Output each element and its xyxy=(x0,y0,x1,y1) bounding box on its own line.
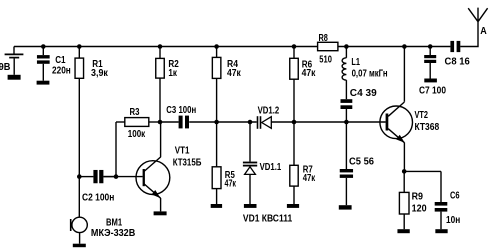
svg-text:R9: R9 xyxy=(412,192,424,203)
svg-text:47к: 47к xyxy=(303,173,316,184)
svg-text:C2 100н: C2 100н xyxy=(82,192,114,203)
svg-text:C4 39: C4 39 xyxy=(350,88,377,99)
svg-text:R8: R8 xyxy=(319,33,329,44)
svg-text:120: 120 xyxy=(412,204,427,215)
svg-text:R3: R3 xyxy=(130,107,140,118)
svg-text:C8 16: C8 16 xyxy=(445,57,471,68)
svg-text:1к: 1к xyxy=(168,68,177,79)
svg-text:3,9к: 3,9к xyxy=(91,68,109,79)
svg-text:C7 100: C7 100 xyxy=(419,86,446,97)
svg-text:220н: 220н xyxy=(52,66,71,77)
svg-text:10н: 10н xyxy=(446,215,460,226)
svg-text:9В: 9В xyxy=(0,62,10,73)
svg-text:47к: 47к xyxy=(302,68,317,79)
svg-text:VD1.2: VD1.2 xyxy=(258,106,280,117)
svg-text:100к: 100к xyxy=(128,129,146,140)
svg-text:510: 510 xyxy=(319,54,332,65)
svg-text:КТ315Б: КТ315Б xyxy=(173,157,202,168)
svg-text:47к: 47к xyxy=(227,68,242,79)
svg-text:VT1: VT1 xyxy=(175,145,190,156)
svg-text:ВМ1: ВМ1 xyxy=(106,217,122,228)
svg-text:VD1 КВС111: VD1 КВС111 xyxy=(243,213,293,224)
svg-text:VT2: VT2 xyxy=(415,110,429,121)
svg-text:C3 100н: C3 100н xyxy=(166,105,196,116)
svg-text:C5 56: C5 56 xyxy=(349,156,374,167)
svg-text:МКЭ-332В: МКЭ-332В xyxy=(91,228,135,239)
svg-text:47к: 47к xyxy=(225,179,237,190)
svg-text:L1: L1 xyxy=(351,57,360,68)
svg-text:A: A xyxy=(480,26,487,37)
svg-text:КТ368: КТ368 xyxy=(415,122,440,133)
svg-text:C6: C6 xyxy=(450,191,460,202)
svg-text:0,07 мкГн: 0,07 мкГн xyxy=(352,69,388,80)
svg-text:C1: C1 xyxy=(55,55,66,66)
svg-text:VD1.1: VD1.1 xyxy=(260,162,282,173)
